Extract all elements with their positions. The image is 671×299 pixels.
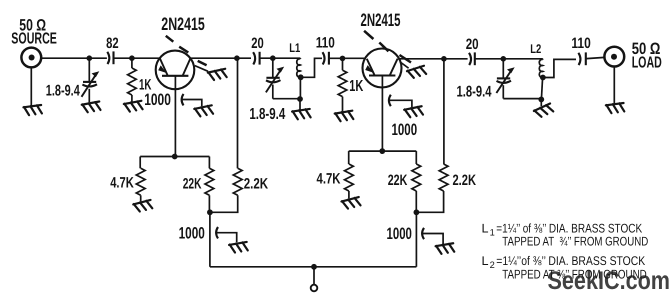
svg-text:SOURCE: SOURCE <box>11 30 57 47</box>
svg-text:2N2415: 2N2415 <box>361 10 401 30</box>
svg-text:22K: 22K <box>388 172 408 189</box>
capacitor 110 (output) <box>578 52 604 65</box>
wire supply stub <box>313 267 315 285</box>
svg-text:110: 110 <box>571 35 590 52</box>
capacitor 1000 (Q2 base bypass) <box>389 95 412 108</box>
variable capacitor 1.8-9.4 (tank 2) <box>496 59 514 99</box>
ground (Q2 base bypass) <box>404 106 423 118</box>
wire stage2 bias bottom to rail <box>415 212 417 266</box>
node I junction (stage1 bias bottom) <box>207 209 213 215</box>
transistor Q1 2N2415 <box>156 51 195 90</box>
svg-text:SeekIC.com: SeekIC.com <box>548 267 671 295</box>
svg-text:LOAD: LOAD <box>632 55 662 72</box>
ground (input varcap) <box>82 101 101 112</box>
wire Q1 collector to node C <box>190 57 251 59</box>
svg-text:1.8-9.4: 1.8-9.4 <box>457 84 492 101</box>
dashed leader to Q1 <box>166 36 207 66</box>
ground (L1) <box>292 109 311 120</box>
capacitor 1000 (stage 2 bias bypass) <box>422 228 443 244</box>
wire tank1 bottom <box>273 98 301 100</box>
resistor 4.7K (stage 2) <box>345 151 354 198</box>
wire Q2 base down <box>381 76 383 152</box>
wire Q1 base down <box>174 76 176 157</box>
svg-text:1: 1 <box>490 227 495 237</box>
node K junction (stage2 bias bottom) <box>414 209 420 215</box>
node C junction <box>234 55 240 61</box>
capacitor 20 (stage 1) <box>253 52 300 65</box>
svg-text:1.8-9.4: 1.8-9.4 <box>46 83 80 100</box>
svg-text:2.2K: 2.2K <box>453 172 477 189</box>
svg-text:2N2415: 2N2415 <box>161 14 205 34</box>
variable capacitor C1 1.8-9.4 input <box>82 58 100 102</box>
svg-text:20: 20 <box>466 36 479 53</box>
svg-text:1.8-9.4: 1.8-9.4 <box>249 106 285 123</box>
capacitor 82 <box>107 51 160 64</box>
node D junction (tank 1 top) <box>270 55 276 61</box>
terminal (supply) <box>311 285 318 292</box>
ground (L2) <box>533 103 553 118</box>
svg-text:1000: 1000 <box>387 225 412 243</box>
ground (Q2 case) <box>407 66 427 79</box>
inductor L1 <box>297 58 304 109</box>
resistor 2.2K (stage 1) <box>210 168 242 212</box>
svg-text:1K: 1K <box>349 78 363 95</box>
capacitor 1000 (Q1 base bypass) <box>182 94 202 106</box>
connector J2 load <box>604 47 624 67</box>
node H junction (Q1 bias) <box>172 154 178 160</box>
capacitor 1000 (stage 1 bias bypass) <box>216 227 237 242</box>
svg-text:20: 20 <box>251 35 263 52</box>
svg-text:2.2K: 2.2K <box>244 176 269 193</box>
label 50 ohm SOURCE <box>11 17 57 48</box>
wire ground lead of J1 <box>30 67 32 106</box>
node L junction (supply tap) <box>311 264 317 270</box>
svg-text:L: L <box>482 221 489 235</box>
resistor 22K (stage 1) <box>205 157 214 213</box>
svg-text:4.7K: 4.7K <box>317 171 341 188</box>
resistor 1K (stage 2) <box>338 58 347 111</box>
ground (stage 1 bias bypass) <box>229 242 248 253</box>
wire 2.2K stage1 branch <box>237 58 239 168</box>
inductor L2 <box>538 59 545 106</box>
ground (Q1 case) <box>208 69 227 81</box>
case lead Q2 <box>400 62 408 68</box>
node G junction (tank 2 top) <box>501 56 507 62</box>
variable capacitor 1.8-9.4 (tank 1) <box>266 58 284 98</box>
transistor Q2 2N2415 <box>363 49 402 88</box>
connector J1 source <box>21 48 41 68</box>
note L1 line 1 <box>482 221 643 237</box>
wire L2 tap <box>543 59 576 77</box>
ground (4.7K stage 2) <box>341 197 360 209</box>
resistor 1K (stage 1) <box>128 58 137 102</box>
ground (Q1 base bypass) <box>194 105 213 117</box>
ground (1K stage 1) <box>124 101 143 112</box>
dashed leader to Q2 <box>364 31 411 63</box>
capacitor 20 (stage 2) <box>469 52 543 65</box>
wire ground lead of J2 <box>613 67 615 104</box>
svg-text:TAPPED AT ¾’’ FROM GROUND: TAPPED AT ¾’’ FROM GROUND <box>502 235 648 249</box>
svg-text:=1¼’’ of ⅜’’ DIA. BRASS STOCK: =1¼’’ of ⅜’’ DIA. BRASS STOCK <box>496 221 642 235</box>
node F junction <box>441 56 447 62</box>
resistor 4.7K (stage 1) <box>136 157 145 202</box>
note L2 line 1 <box>482 254 646 270</box>
node B junction (1K top) <box>129 55 135 61</box>
capacitor 110 (interstage) <box>323 52 365 65</box>
wire L1 tap <box>301 58 322 77</box>
wire bottom supply rail <box>210 266 417 268</box>
svg-text:22K: 22K <box>183 176 202 193</box>
svg-text:2: 2 <box>490 260 495 270</box>
node A junction <box>87 55 93 61</box>
svg-text:1000: 1000 <box>179 225 205 243</box>
svg-text:4.7K: 4.7K <box>110 175 134 192</box>
resistor 22K (stage 2) <box>412 151 421 212</box>
label 50 ohm LOAD <box>632 40 662 72</box>
svg-text:1000: 1000 <box>392 121 418 139</box>
node E junction (1K-2 top) <box>340 56 346 62</box>
svg-text:L2: L2 <box>530 42 541 56</box>
wire Q2 collector to node F <box>398 58 468 60</box>
svg-text:L: L <box>482 254 489 268</box>
svg-text:82: 82 <box>106 35 119 52</box>
ground (source) <box>23 105 42 115</box>
ground (1K stage 2) <box>335 111 354 122</box>
wire 2.2K stage2 branch <box>443 59 445 164</box>
wire source to node A <box>41 57 107 59</box>
svg-text:L1: L1 <box>289 41 300 55</box>
ground (load) <box>606 103 625 113</box>
svg-text:1000: 1000 <box>144 91 171 109</box>
svg-text:110: 110 <box>316 34 335 51</box>
ground (stage 2 bias bypass) <box>435 243 454 254</box>
node J junction (Q2 bias) <box>379 148 385 154</box>
wire bias rail stage 1 <box>140 156 209 158</box>
resistor 2.2K (stage 2) <box>417 164 449 212</box>
wire bias rail stage 2 <box>349 150 417 152</box>
ground (4.7K stage 1) <box>133 200 152 212</box>
case lead Q1 <box>195 66 208 72</box>
wire stage1 bias bottom to rail <box>209 212 211 266</box>
wire tank2 bottom <box>503 98 541 100</box>
